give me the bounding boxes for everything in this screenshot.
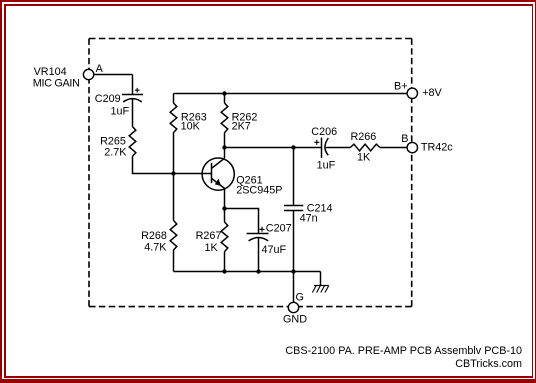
resistor R267 zigzag (221, 222, 228, 252)
junction dot base node (171, 171, 175, 175)
resistor R265 zigzag (129, 127, 136, 157)
svg-text:VR104: VR104 (34, 66, 67, 78)
svg-text:1K: 1K (205, 242, 219, 254)
wire divider column top (173, 94, 175, 104)
svg-text:A: A (96, 63, 104, 75)
resistor R262 zigzag (221, 103, 228, 133)
node A circle (83, 69, 93, 79)
capacitor C206 curved plate (325, 138, 328, 155)
ground hatch 3 (321, 286, 325, 293)
capacitor C214 top plate (284, 205, 303, 207)
capacitor C207 curved plate (249, 238, 269, 241)
capacitor C209 plus sign (135, 88, 140, 93)
wire emitter branch to C207 (225, 209, 259, 234)
wire bottom rail to node G (293, 272, 295, 303)
wire R267 to bottom rail (224, 252, 226, 272)
junction dot C214 top node (291, 145, 295, 149)
ground hatch 1 (312, 286, 316, 293)
dashed PCB boundary bottom (89, 306, 412, 308)
wire R268 to bottom rail (173, 250, 175, 272)
capacitor C207 plus plate (247, 233, 269, 235)
wire corner down to C209 (132, 75, 134, 95)
wire ground stub (320, 272, 322, 286)
wire C207 to bottom rail (258, 238, 260, 272)
svg-text:47uF: 47uF (262, 244, 287, 256)
wire R262 top (224, 94, 226, 104)
wire base node to R268 (173, 174, 175, 221)
transistor Q261 emitter arrowhead (215, 179, 221, 186)
wire top rail (174, 93, 408, 95)
svg-text:C209: C209 (95, 93, 121, 105)
svg-text:2.7K: 2.7K (104, 146, 127, 158)
svg-text:2K7: 2K7 (232, 121, 251, 133)
wire C206 to R266 (326, 147, 351, 149)
svg-text:B: B (401, 133, 408, 145)
svg-text:+8V: +8V (422, 87, 442, 99)
node B+ circle (407, 88, 417, 98)
svg-text:R266: R266 (351, 131, 377, 143)
capacitor C209 plus plate (122, 94, 143, 96)
transistor Q261 collector diagonal (212, 158, 225, 168)
dashed PCB boundary top (89, 38, 412, 40)
capacitor C206 plus sign (314, 140, 319, 145)
svg-text:MIC GAIN: MIC GAIN (33, 77, 80, 89)
transistor Q261 emitter diagonal (212, 178, 225, 188)
resistor R268 zigzag (170, 220, 177, 250)
ground bar (314, 285, 329, 287)
svg-text:G: G (296, 291, 304, 303)
svg-text:GND: GND (283, 314, 307, 326)
transistor Q261 circle (202, 158, 234, 190)
wire R262 to collector node (224, 133, 226, 148)
wire R265 down and right to base node (133, 156, 174, 173)
wire node A to corner (94, 74, 133, 76)
svg-text:R267: R267 (196, 230, 222, 242)
capacitor C214 bottom plate (284, 210, 303, 212)
wire base (174, 173, 212, 175)
svg-text:47n: 47n (300, 212, 318, 224)
wire R266 to node B (380, 147, 407, 149)
capacitor C206 plus plate (321, 138, 323, 158)
svg-text:TR42c: TR42c (421, 142, 453, 154)
svg-text:1K: 1K (357, 152, 371, 164)
dashed PCB boundary left (88, 39, 90, 307)
svg-text:10K: 10K (181, 121, 201, 133)
resistor R263 zigzag (170, 103, 177, 133)
wire emitter node to R267 (224, 209, 226, 223)
ground hatch 4 (325, 286, 329, 293)
node G circle (288, 302, 298, 312)
svg-text:C207: C207 (266, 222, 292, 234)
wire C214 to bottom rail (293, 211, 295, 272)
capacitor C207 plus sign (260, 227, 265, 232)
wire R263 to base node (173, 133, 175, 174)
capacitor C209 curved plate (123, 99, 142, 102)
wire bottom rail (174, 271, 321, 273)
dashed PCB boundary right (411, 39, 413, 307)
wire C209 to R265 (132, 99, 134, 127)
junction dot C214 bottom (291, 269, 295, 273)
wire collector node down to C214 (293, 148, 295, 206)
node B circle (407, 142, 417, 152)
junction dot C207 bottom (256, 269, 260, 273)
junction dot R267 bottom (222, 269, 226, 273)
svg-text:1uF: 1uF (111, 106, 130, 118)
svg-text:CBS-2100 PA. PRE-AMP PCB Assem: CBS-2100 PA. PRE-AMP PCB Assemblv PCB-10 (285, 345, 522, 357)
svg-text:C206: C206 (311, 126, 337, 138)
resistor R266 zigzag (350, 144, 380, 151)
svg-text:2SC945P: 2SC945P (236, 184, 282, 196)
wire collector rail (225, 147, 322, 149)
svg-text:1uF: 1uF (317, 160, 336, 172)
junction dot R262/top rail (222, 91, 226, 95)
svg-text:CBTricks.com: CBTricks.com (455, 358, 522, 370)
wire emitter vertical (224, 188, 226, 208)
wire collector vertical (224, 148, 226, 159)
transistor Q261 base bar (211, 163, 213, 183)
ground hatch 2 (317, 286, 321, 293)
junction dot collector node (222, 145, 226, 149)
svg-text:4.7K: 4.7K (144, 241, 167, 253)
junction dot emitter node (222, 206, 226, 210)
svg-text:B+: B+ (394, 81, 408, 93)
